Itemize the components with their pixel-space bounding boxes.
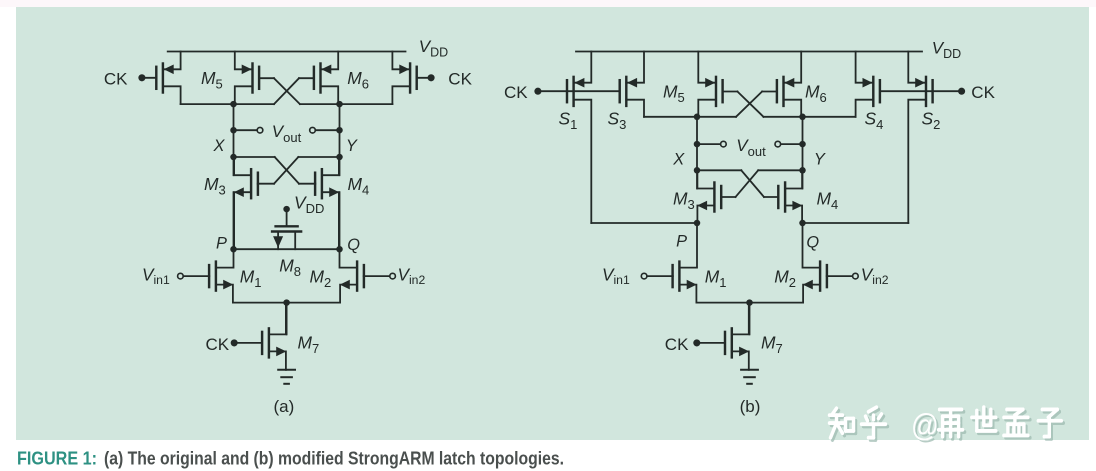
wire to M3 gate (a)	[258, 183, 274, 185]
node Y dot (a)	[336, 154, 343, 161]
transistor input NMOS M2 (b)	[803, 262, 827, 303]
svg-text:M4: M4	[348, 174, 370, 198]
node CK bullet right (a)	[428, 74, 435, 81]
junction Y top (b)	[799, 114, 806, 121]
wire to Vout- terminal (b)	[781, 143, 803, 145]
node P (b)	[694, 220, 701, 227]
transistor cross-coupled NMOS M4 (b)	[778, 170, 802, 223]
junction X at Vout (b)	[694, 141, 701, 148]
wire to Vout+ terminal (b)	[697, 143, 721, 145]
wire Vin1 to M1 gate (b)	[647, 275, 673, 277]
svg-text:Vin2: Vin2	[398, 265, 426, 287]
svg-text:(a): (a)	[274, 397, 295, 416]
transistor cross-coupled PMOS M5 (a)	[235, 52, 259, 105]
transistor cross-coupled NMOS M3 (b)	[697, 170, 721, 223]
svg-text:CK: CK	[206, 335, 230, 354]
svg-text:P: P	[216, 235, 227, 253]
faint scan tint at top margin	[0, 0, 1096, 7]
transistor precharge switch S4, CK gate (b)	[856, 52, 880, 117]
wire Y column upper (b)	[802, 117, 804, 189]
terminal Vout+ (a)	[257, 127, 263, 133]
svg-text:M1: M1	[240, 266, 262, 290]
svg-text:M7: M7	[298, 332, 320, 356]
svg-text:M3: M3	[204, 174, 226, 198]
svg-text:CK: CK	[504, 83, 528, 102]
terminal Vin1 (b)	[641, 273, 647, 279]
terminal Vout- (a)	[310, 127, 316, 133]
wire X column upper (a)	[233, 104, 235, 175]
svg-text:CK: CK	[104, 70, 128, 89]
wire M5 gate to node Y (a)	[300, 103, 340, 105]
wire M6 gate diagonal to X (b)	[736, 92, 762, 117]
node Q (b)	[799, 220, 806, 227]
junction Y at Vout (b)	[799, 141, 806, 148]
wire S4 drain to Y (b)	[803, 116, 856, 118]
wire M6 gate stub (a)	[299, 77, 314, 79]
wire M5 gate diagonal to Y (a)	[274, 78, 300, 104]
junction X at Vout (a)	[230, 127, 237, 134]
svg-text:M3: M3	[673, 188, 695, 212]
wire Y to M3 gate diagonal (b)	[736, 170, 759, 197]
wire M6 gate to node X (a)	[234, 103, 275, 105]
transistor cross-coupled NMOS M3 (a)	[234, 157, 258, 249]
wire CK to S2/S4 gates (b)	[880, 90, 962, 92]
svg-text:Q: Q	[347, 236, 360, 254]
wire left precharge drain to X (a)	[181, 103, 234, 105]
svg-text:(a) The original and (b) modif: (a) The original and (b) modified Strong…	[104, 448, 564, 468]
wire M6 gate stub (b)	[762, 91, 777, 93]
svg-text:Vout: Vout	[736, 136, 766, 159]
transistor cross-coupled PMOS M5 (b)	[698, 52, 722, 117]
transistor input NMOS M1 (b)	[673, 262, 697, 303]
wire X to M4 gate stub (b)	[697, 169, 741, 171]
wire tail (b)	[697, 302, 803, 304]
wire Vin2 to M2 gate (b)	[827, 275, 853, 277]
svg-text:P: P	[676, 233, 687, 251]
svg-text:M7: M7	[761, 332, 783, 356]
wire to M4 gate (b)	[764, 196, 778, 198]
svg-text:VDD: VDD	[294, 193, 324, 217]
svg-text:S2: S2	[922, 108, 941, 132]
wire tail to M7 drain (b)	[749, 303, 751, 335]
wire Y to M3 gate stub (b)	[758, 169, 802, 171]
wire M5 gate stub (a)	[259, 77, 274, 79]
node Y dot (b)	[799, 167, 806, 174]
transistor cross-coupled PMOS M6 (b)	[777, 52, 801, 117]
wire to Vout+ terminal (a)	[234, 129, 258, 131]
wire M5 gate to node Y (b)	[764, 116, 803, 118]
svg-text:CK: CK	[971, 83, 995, 102]
svg-text:M6: M6	[805, 82, 827, 106]
junction tail (a)	[283, 299, 290, 306]
wire S3 drain to X (b)	[644, 116, 697, 118]
wire Vin1 to M1 gate (a)	[183, 275, 209, 277]
node CK bullet left (a)	[138, 74, 145, 81]
junction X top (b)	[694, 114, 701, 121]
wire S1 drain down to P (b)	[591, 222, 697, 224]
svg-text:Y: Y	[346, 137, 358, 155]
node Q (a)	[336, 246, 343, 253]
svg-text:Q: Q	[806, 233, 819, 251]
wire Q to M2 drain (a)	[339, 249, 341, 267]
svg-text:VDD: VDD	[419, 37, 448, 60]
svg-text:Y: Y	[814, 150, 826, 168]
wire right precharge drain to Y (a)	[340, 103, 393, 105]
wire P to M1 drain (b)	[696, 223, 698, 268]
wire tail to M7 drain (a)	[286, 303, 288, 335]
watermark zhihu @zaishimengzi	[830, 407, 1064, 445]
ground	[741, 370, 758, 384]
wire CK to S1/S3 gates (b)	[538, 90, 620, 92]
wire M6 gate diagonal to X (a)	[274, 78, 299, 104]
wire Y to M3 gate stub (a)	[298, 156, 339, 158]
wire CK to right precharge gate (a)	[417, 77, 431, 79]
wire X to M4 gate diagonal (b)	[741, 170, 764, 197]
svg-text:S3: S3	[608, 108, 627, 132]
node CK bullet right (b)	[958, 88, 965, 95]
terminal Vin2 (a)	[390, 273, 396, 279]
transistor precharge switch S2, CK gate (b)	[908, 52, 932, 224]
junction X top (a)	[230, 101, 237, 108]
wire M6 gate to node X (b)	[697, 116, 736, 118]
node CK bullet at M7 (a)	[231, 339, 238, 346]
node P (a)	[230, 246, 237, 253]
svg-text:M5: M5	[663, 82, 685, 106]
node X dot (a)	[230, 154, 237, 161]
wire to M3 gate (b)	[721, 196, 735, 198]
transistor precharge PMOS right, CK gate (a)	[392, 52, 416, 105]
wire X to M4 gate stub (a)	[234, 156, 275, 158]
transistor tail NMOS M7 (b)	[725, 303, 749, 370]
svg-text:S4: S4	[865, 108, 884, 132]
svg-text:M2: M2	[774, 266, 796, 290]
wire X column upper (b)	[696, 117, 698, 189]
terminal Vin2 (b)	[853, 273, 859, 279]
ground	[278, 370, 295, 384]
wire P-Q (a)	[234, 248, 340, 250]
junction Y at Vout (a)	[336, 127, 343, 134]
node X dot (b)	[694, 167, 701, 174]
svg-text:M8: M8	[279, 256, 301, 280]
svg-text:M6: M6	[347, 68, 369, 92]
wire P to M1 drain (a)	[233, 249, 235, 267]
wire M3 source to P (a)	[233, 192, 235, 249]
node VDD bullet for M8 gate (a)	[283, 206, 290, 213]
transistor precharge PMOS left, CK gate (a)	[156, 52, 180, 105]
wire Vin2 to M2 gate (a)	[364, 275, 390, 277]
svg-text:X: X	[213, 137, 226, 155]
transistor M8 (a)	[272, 209, 301, 249]
svg-text:M2: M2	[310, 266, 332, 290]
svg-text:Vin1: Vin1	[602, 265, 630, 287]
svg-text:FIGURE 1:: FIGURE 1:	[17, 448, 97, 468]
svg-text:CK: CK	[665, 335, 689, 354]
svg-text:M1: M1	[705, 266, 727, 290]
wire to M4 gate (a)	[299, 183, 315, 185]
wire S2 drain down to Q (b)	[803, 222, 909, 224]
svg-text:X: X	[672, 150, 685, 168]
svg-text:Vout: Vout	[272, 122, 302, 145]
transistor tail NMOS M7 (a)	[262, 303, 286, 370]
wire CK to left precharge gate (a)	[142, 77, 156, 79]
svg-text:S1: S1	[559, 108, 578, 132]
svg-text:Vin2: Vin2	[861, 265, 889, 287]
node CK bullet at M7 (b)	[693, 339, 700, 346]
wire M4 source to Q (a)	[339, 192, 341, 249]
transistor cross-coupled NMOS M4 (a)	[315, 157, 339, 249]
junction tail (b)	[746, 299, 753, 306]
wire CK to M7 gate (b)	[697, 342, 725, 344]
wire M5 gate stub (b)	[722, 91, 737, 93]
svg-text:Vin1: Vin1	[142, 265, 170, 287]
wire CK to M7 gate (a)	[234, 342, 262, 344]
VDD rail (b)	[576, 51, 922, 53]
svg-text:M5: M5	[201, 68, 223, 92]
junction Y top (a)	[336, 101, 343, 108]
terminal Vout+ (b)	[721, 141, 727, 147]
wire to Vout- terminal (a)	[315, 129, 339, 131]
wire Y to M3 gate diagonal (a)	[274, 157, 298, 184]
transistor input NMOS M2 (a)	[340, 262, 364, 303]
svg-text:M4: M4	[817, 188, 839, 212]
wire X to M4 gate diagonal (a)	[275, 157, 299, 184]
svg-text:VDD: VDD	[932, 38, 961, 61]
transistor cross-coupled PMOS M6 (a)	[314, 52, 338, 105]
terminal Vout- (b)	[775, 141, 781, 147]
transistor precharge switch S1, CK gate (b)	[567, 52, 591, 224]
VDD rail (a)	[168, 51, 406, 53]
svg-text:(b): (b)	[740, 397, 761, 416]
wire Y column upper (a)	[339, 104, 341, 175]
terminal Vin1 (a)	[178, 273, 184, 279]
node CK bullet left (b)	[534, 88, 541, 95]
svg-text:CK: CK	[448, 69, 472, 88]
wire M5 gate diagonal to Y (b)	[737, 92, 763, 117]
transistor precharge switch S3, CK gate (b)	[620, 52, 644, 117]
wire Q to M2 drain (b)	[802, 223, 804, 268]
transistor input NMOS M1 (a)	[209, 262, 233, 303]
wire tail (a)	[234, 302, 340, 304]
svg-text:@: @	[911, 408, 939, 443]
